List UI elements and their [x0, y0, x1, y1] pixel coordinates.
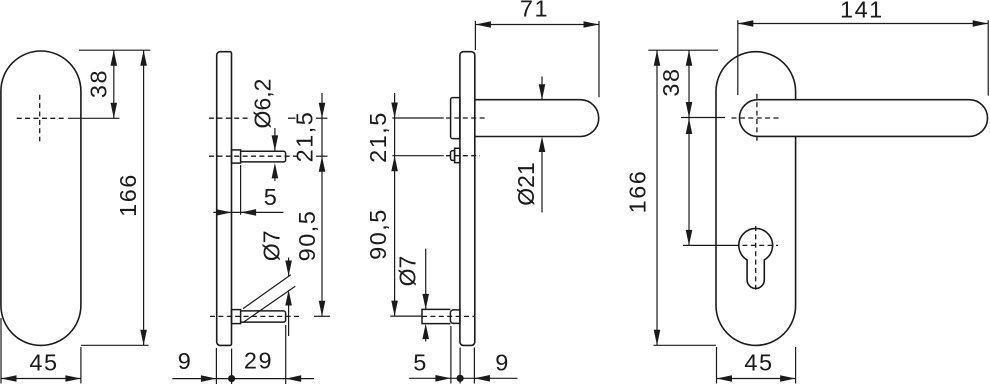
- dimension 45 line: [1, 378, 81, 380]
- chain junction dot: [228, 375, 235, 382]
- dimension 45 arrow left: [1, 375, 17, 382]
- lower stud centerline dashed: [422, 315, 475, 317]
- dimension 71 right extension: [598, 21, 600, 97]
- dimension 71 line: [475, 24, 599, 26]
- dia 7 arrow up: [285, 290, 292, 306]
- bottom chain dimension line 9 and 29: [172, 378, 314, 380]
- handle centerline solid extension: [392, 117, 443, 119]
- dimension 72 arrow down view4: [686, 230, 693, 246]
- dimension 141 arrow right: [973, 20, 989, 27]
- dimension 9 arrow pointing left view3: [474, 375, 490, 382]
- dimension 38 arrow down view4: [686, 102, 693, 118]
- upper centerline extension tick: [316, 117, 328, 119]
- dia 7 leader line upper: [288, 258, 290, 277]
- dimension 38 line view4: [688, 50, 690, 117]
- handle hole crosshair horizontal centerline: [17, 117, 65, 119]
- dia 6.2 leader tail lower: [274, 178, 276, 181]
- dimension 38 line: [113, 50, 115, 118]
- dimension 71 left extension: [474, 21, 476, 50]
- svg-text:141: 141: [840, 0, 884, 22]
- dimension 29 arrow pointing left: [286, 375, 302, 382]
- handle crosshair vertical dashed: [756, 94, 758, 143]
- dia 21 lower leader tail: [541, 152, 543, 212]
- bottom chain extension plate right view3: [473, 348, 475, 384]
- dimension 166 arrow up: [140, 50, 147, 65]
- plate profile: [217, 52, 232, 346]
- upper screw centerline dashed: [209, 155, 300, 157]
- svg-text:21,5: 21,5: [292, 111, 318, 163]
- top extension line at plate apex view4: [648, 49, 718, 51]
- handle crosshair horizontal dashed: [732, 117, 781, 119]
- dimension 21.5 arrow down view3: [391, 103, 398, 119]
- dimension 21.5 line view3: [394, 93, 396, 156]
- 45 left extension view4: [716, 347, 718, 384]
- svg-text:Ø6,2: Ø6,2: [249, 79, 275, 129]
- svg-text:9: 9: [495, 350, 510, 376]
- lower stud centerline solid extension: [390, 315, 422, 317]
- dimension 166 line: [143, 50, 145, 345]
- lower stud shaft: [422, 309, 450, 323]
- dimension 45 arrow right: [65, 375, 81, 382]
- dimension 141 right extension: [987, 20, 989, 95]
- svg-text:Ø21: Ø21: [513, 162, 539, 205]
- dia 6.2 arrow down: [272, 135, 279, 151]
- dimension 5 line: [213, 211, 283, 213]
- upper centerline dash segment: [288, 117, 296, 119]
- dimension 90.5 arrow up: [319, 156, 326, 172]
- bottom chain dimension line 5 and 9 view3: [409, 377, 517, 379]
- dimension 71 arrow right: [584, 21, 600, 28]
- bottom chain extension plate left: [215, 348, 217, 384]
- dimension 141 left extension: [737, 20, 739, 95]
- dia 7 arrow down view3: [422, 294, 429, 310]
- svg-text:90,5: 90,5: [365, 208, 391, 260]
- svg-text:29: 29: [244, 348, 273, 374]
- chain junction dot view3: [457, 375, 464, 382]
- spindle hub block behind plate: [451, 98, 460, 139]
- extension line at cylinder centerline view4: [683, 244, 734, 246]
- lever handle front stadium: [739, 100, 987, 137]
- svg-text:45: 45: [744, 350, 773, 376]
- euro profile cylinder keyhole: [739, 228, 773, 288]
- extension line at handle centerline view4: [681, 117, 725, 119]
- dimension 90.5 arrow up view3: [391, 156, 398, 172]
- keyhole crosshair vertical dashed: [755, 226, 757, 291]
- dia 21 arrow up at handle bottom: [539, 137, 546, 153]
- dimension 71 arrow left: [475, 21, 491, 28]
- dimension 45 arrow left view4: [717, 375, 733, 382]
- dimension 38 arrow down: [111, 103, 118, 119]
- dimension 141 line: [738, 23, 988, 25]
- plate profile: [460, 52, 475, 346]
- svg-text:Ø7: Ø7: [395, 256, 421, 287]
- dia 6.2 leader line upper: [274, 128, 276, 151]
- dimension 166 arrow up view4: [654, 50, 661, 65]
- svg-text:Ø7: Ø7: [259, 230, 285, 261]
- dimension 21.5 arrow down: [319, 103, 326, 119]
- svg-text:38: 38: [658, 67, 684, 96]
- dimension 166 arrow down: [140, 330, 147, 346]
- upper stud centerline solid extension: [392, 155, 443, 157]
- bottom chain extension plate right: [231, 349, 233, 384]
- upper screw centerline tick: [316, 155, 328, 157]
- 45 right extension view4: [795, 347, 797, 384]
- upper screw M6 shaft: [241, 151, 286, 162]
- dimension 5 extension line: [240, 165, 242, 215]
- svg-text:5: 5: [413, 350, 428, 376]
- 45 left extension line: [0, 318, 2, 384]
- upper stud sleeve tip: [451, 151, 455, 161]
- plate outline stadium 45x166: [1, 51, 81, 345]
- dia 7 oblique extension upper: [243, 275, 291, 309]
- dimension 45 line view4: [717, 378, 796, 380]
- svg-text:45: 45: [29, 350, 58, 376]
- svg-text:38: 38: [85, 69, 111, 98]
- dimension 72 arrow up view4: [686, 119, 693, 135]
- plate outline stadium 45x166: [716, 52, 796, 346]
- lower screw shaft: [241, 311, 286, 322]
- keyhole crosshair horizontal dashed: [734, 244, 778, 246]
- dia 7 oblique extension lower: [243, 286, 295, 322]
- svg-text:166: 166: [115, 173, 141, 217]
- handle hole crosshair vertical centerline: [39, 95, 41, 142]
- lower screw collar: [232, 310, 241, 324]
- dimension 166 line view4: [656, 50, 658, 345]
- bottom extension line at plate bottom: [81, 344, 149, 346]
- lower screw centerline tick: [314, 315, 330, 317]
- svg-text:71: 71: [520, 0, 549, 22]
- svg-text:90,5: 90,5: [294, 210, 320, 262]
- bottom chain extension stud end view3: [450, 326, 452, 384]
- lever handle bar side view: [475, 100, 599, 137]
- dia 7 arrow up view3: [422, 324, 429, 340]
- dia 6.2 arrow up: [272, 163, 279, 179]
- svg-text:166: 166: [625, 170, 651, 214]
- dia 21 arrow down at handle top: [539, 84, 546, 100]
- svg-text:21,5: 21,5: [365, 111, 391, 163]
- dimension 90.5 line view2: [321, 156, 323, 316]
- dimension 5 arrow pointing left: [241, 209, 257, 216]
- dimension 90.5 arrow down view3: [391, 301, 398, 317]
- dia 21 upper leader tail: [541, 76, 543, 99]
- bottom chain extension screw end: [285, 325, 287, 384]
- bottom chain extension plate left view3: [459, 348, 461, 384]
- dimension 90.5 arrow down: [319, 301, 326, 317]
- upper centerline dashed handle hole: [209, 117, 250, 119]
- dimension 45 arrow right view4: [780, 375, 796, 382]
- dimension 90.5 line view3: [394, 156, 396, 316]
- dimension 21.5 line view2: [321, 93, 323, 156]
- upper stud sleeve collar: [455, 148, 460, 162]
- dimension 166 arrow down view4: [654, 330, 661, 346]
- dia 7 leader tail lower: [288, 306, 290, 337]
- bottom extension line at plate bottom view4: [654, 344, 717, 346]
- upper stud centerline dashed: [446, 155, 480, 157]
- dimension 5 arrow pointing right view3: [435, 375, 451, 382]
- dimension 9 arrow pointing right: [201, 375, 217, 382]
- dia 7 arrow down: [285, 261, 292, 277]
- dimension 38 arrow up: [111, 50, 118, 65]
- top extension line at plate apex: [79, 49, 150, 51]
- dimension 72 line view4 unlabeled: [688, 118, 690, 246]
- extension line crosshair to 38 dim: [68, 117, 120, 119]
- dimension 141 arrow left: [738, 20, 754, 27]
- dia 7 leader tail lower view3: [425, 339, 427, 341]
- upper screw M6 collar: [232, 150, 241, 163]
- dimension 38 arrow up view4: [686, 50, 693, 65]
- dia 7 leader line upper view3: [425, 249, 427, 310]
- handle centerline dashed: [446, 117, 486, 119]
- 45 right extension line: [80, 347, 82, 384]
- svg-text:9: 9: [178, 348, 193, 374]
- dimension 5 arrow pointing right: [216, 209, 232, 216]
- svg-text:5: 5: [264, 184, 279, 210]
- lower screw centerline dashed: [210, 315, 300, 317]
- lower stud ferrule at plate: [450, 310, 460, 324]
